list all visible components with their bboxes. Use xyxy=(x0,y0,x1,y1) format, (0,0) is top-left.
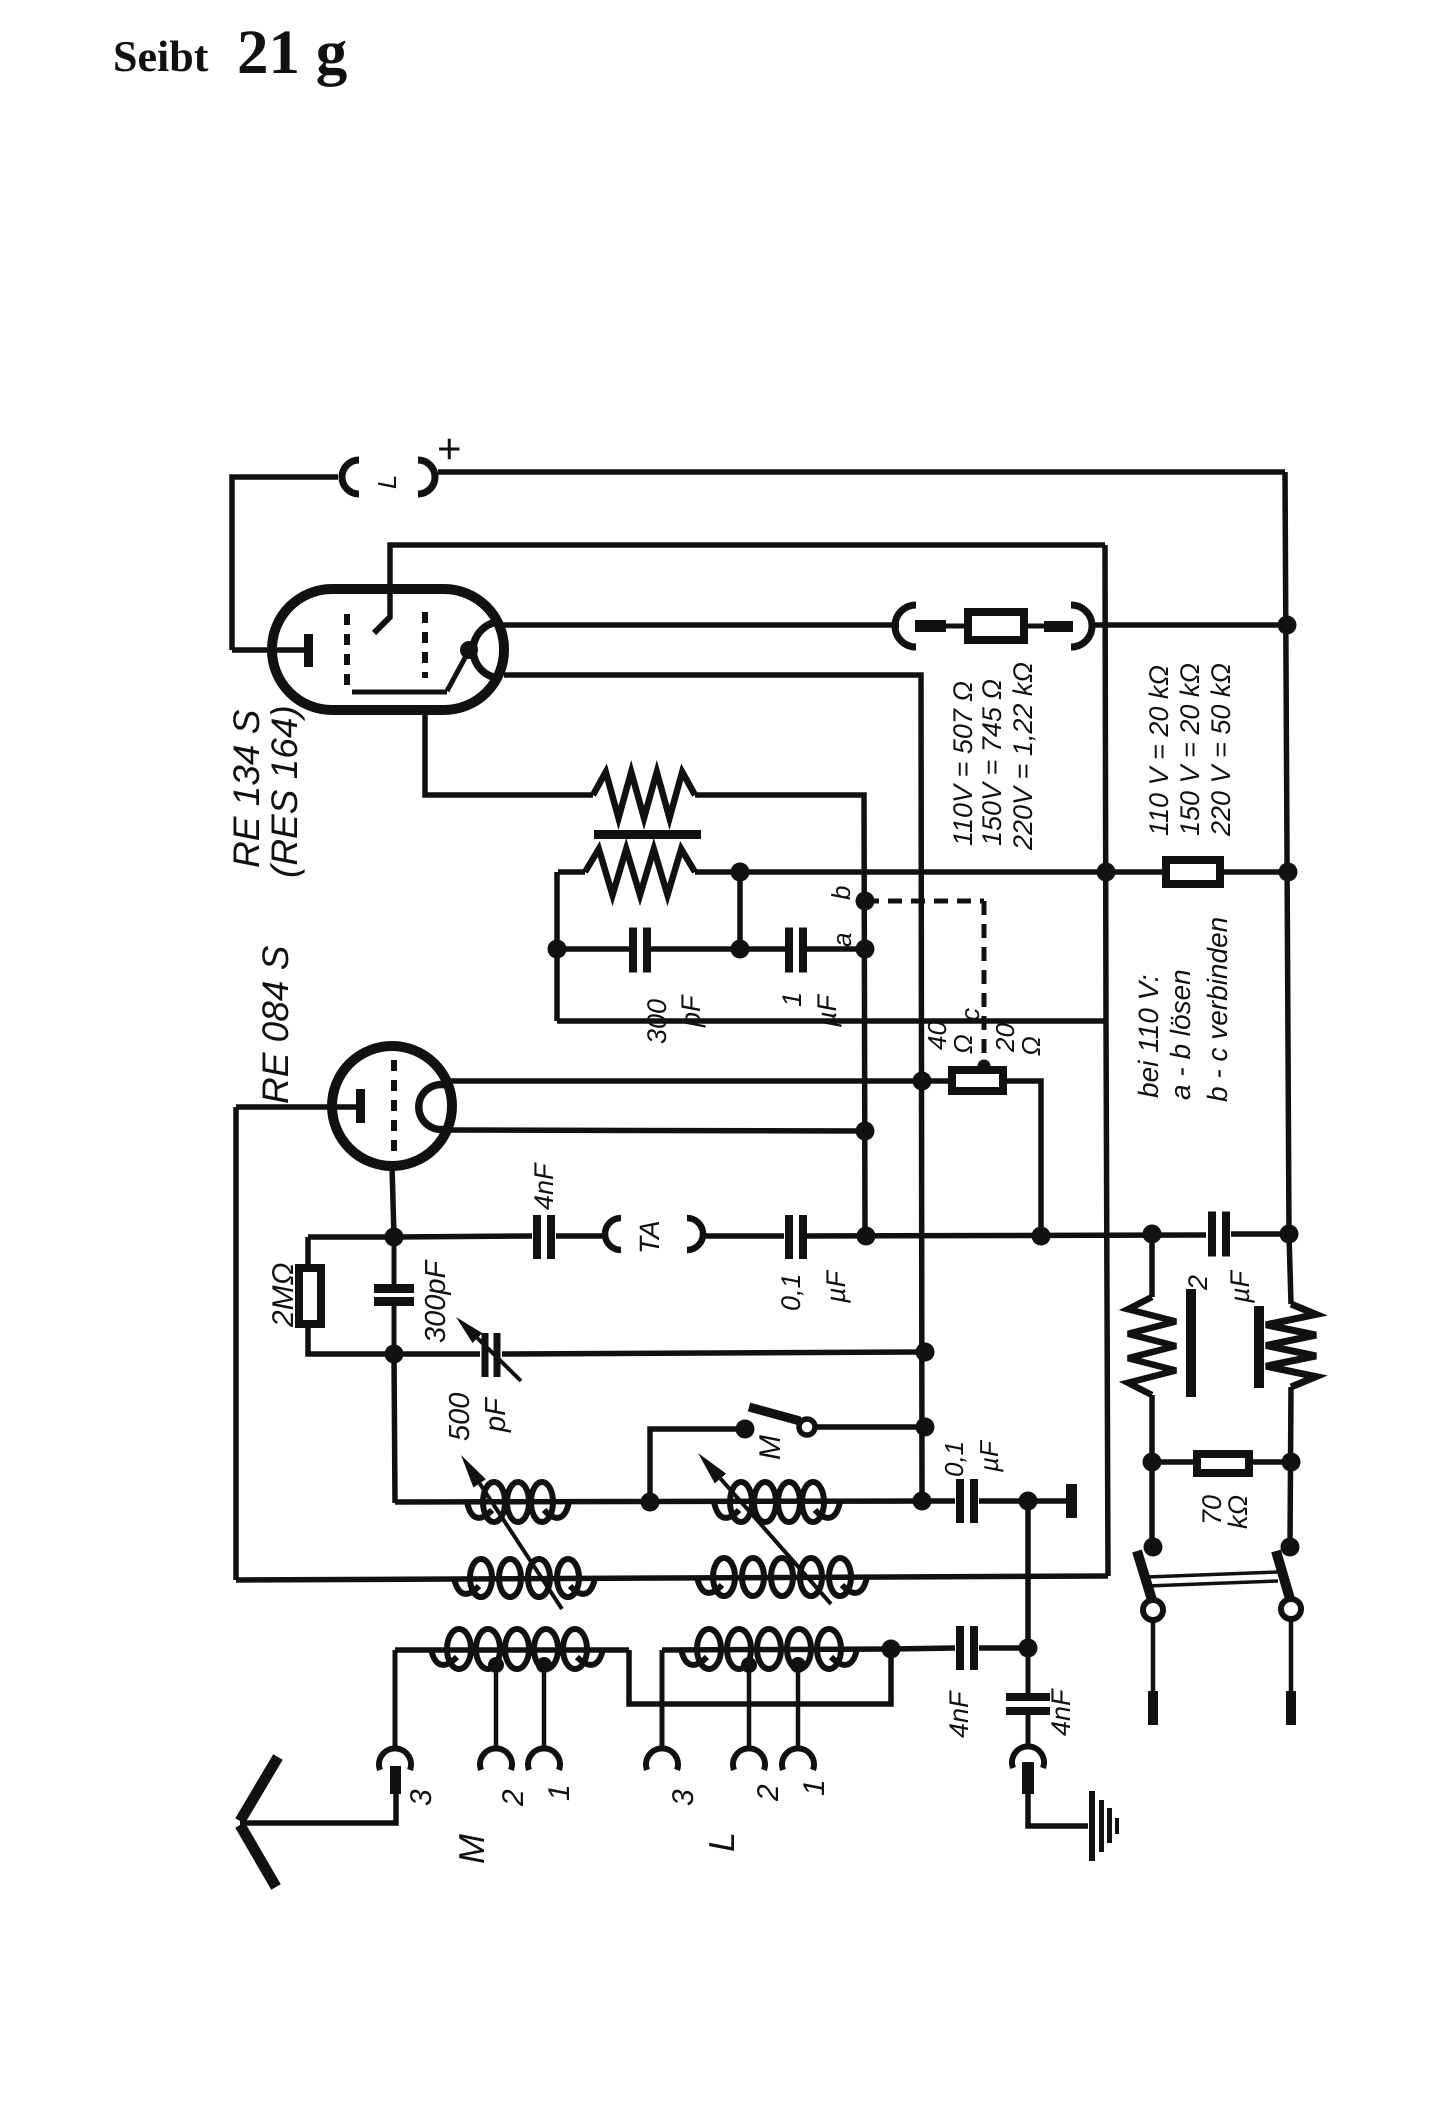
wire 0.1uF to bus row 1235 xyxy=(807,1235,1206,1236)
ground symbol bar 1 xyxy=(1089,1791,1095,1861)
ground symbol bar 3 xyxy=(1107,1808,1112,1843)
tube RE084S grid dashed electrode xyxy=(391,1060,397,1152)
switch left contact circle xyxy=(1143,1600,1163,1620)
svg-text:Seibt: Seibt xyxy=(113,32,209,81)
node junction 394-1354 xyxy=(385,1345,404,1364)
wire 2Mohm top leg xyxy=(305,1237,311,1268)
tube RE084S anode bar xyxy=(356,1089,365,1123)
antenna symbol upper stroke xyxy=(240,1757,278,1821)
svg-text:bei 110 V:: bei 110 V: xyxy=(1133,974,1164,1098)
svg-text:1: 1 xyxy=(777,992,807,1007)
wire ballast internal left xyxy=(946,624,968,629)
arrow variometer left xyxy=(480,1483,562,1609)
wire M-switch branch xyxy=(650,1429,744,1502)
tube RE134S anode bar xyxy=(304,634,313,667)
tube RE084S envelope xyxy=(332,1046,452,1166)
wire transformer primary right corner xyxy=(695,795,865,1236)
capacitor block right plate xyxy=(1254,1306,1264,1388)
wire resistor to bus 872 xyxy=(1220,869,1289,875)
svg-text:a: a xyxy=(827,933,857,947)
svg-text:220V = 1,22 kΩ: 220V = 1,22 kΩ xyxy=(1008,662,1038,851)
wire heater lead down from RE134S xyxy=(425,705,593,795)
transformer core bar xyxy=(594,830,701,839)
node M-switch contact dot xyxy=(736,1420,755,1439)
switch left pin bar xyxy=(1148,1691,1158,1725)
switch right pin bar xyxy=(1286,1691,1296,1725)
loudspeaker terminal L (left arc) xyxy=(342,460,359,494)
svg-text:c: c xyxy=(955,1008,985,1021)
resistor 2Mohm box xyxy=(299,1268,321,1324)
arrow variometer right xyxy=(720,1479,831,1604)
wire tall vertical right of centre xyxy=(1105,545,1108,1576)
node junction bus 872 xyxy=(1279,863,1298,882)
switch right lever xyxy=(1276,1551,1290,1599)
tube RE134S cathode dot xyxy=(460,641,478,659)
jack socket L1 xyxy=(782,1748,814,1770)
dashed wire b to c xyxy=(865,899,984,904)
svg-text:110V = 507 Ω: 110V = 507 Ω xyxy=(948,681,978,846)
node junction 866-1236 xyxy=(857,1227,876,1246)
svg-text:0,1: 0,1 xyxy=(776,1273,806,1311)
node junction bus-lamp xyxy=(1278,616,1297,635)
wire between caps vertical xyxy=(392,1237,397,1288)
wire plug to ground xyxy=(1028,1794,1088,1826)
node junction 922-1501 xyxy=(913,1492,932,1511)
wire ballast internal right xyxy=(1024,624,1044,629)
svg-text:220 V = 50 kΩ: 220 V = 50 kΩ xyxy=(1206,663,1236,837)
wire 0.1uF to chassis bar xyxy=(979,1498,1066,1504)
capacitor 300pF AF xyxy=(629,928,637,973)
wire 2uF to bus xyxy=(1231,1231,1289,1237)
jack socket M1 xyxy=(528,1748,560,1770)
svg-text:0,1: 0,1 xyxy=(939,1441,969,1477)
svg-text:110 V = 20 kΩ: 110 V = 20 kΩ xyxy=(1144,665,1174,836)
node b junction xyxy=(856,892,875,911)
svg-text:4nF: 4nF xyxy=(1046,1688,1076,1736)
wire 500pF row xyxy=(394,1351,480,1357)
wire row C jumper down xyxy=(629,1650,891,1704)
wire below RE084S xyxy=(392,1166,394,1237)
wire tap L1 xyxy=(796,1664,801,1747)
wire earth branch to 4nF series xyxy=(1026,1648,1031,1693)
M-switch open contact circle xyxy=(799,1419,815,1435)
earth socket arc xyxy=(1012,1746,1044,1768)
jack socket L3 xyxy=(646,1748,678,1770)
wire coil C2 left leg xyxy=(660,1650,665,1747)
ground symbol bar 4 xyxy=(1115,1818,1119,1834)
rheostat 40-20 ohm box xyxy=(952,1070,1003,1091)
node tap M2 xyxy=(488,1657,504,1673)
wire tap L2 xyxy=(747,1664,752,1747)
wire speaker-left to corner xyxy=(232,477,338,650)
wire cathode lead RE134S lower xyxy=(504,675,922,1500)
resistor dropper right zigzag xyxy=(1266,1304,1316,1387)
tube RE134S grid hook xyxy=(374,616,391,633)
svg-text:500: 500 xyxy=(444,1393,476,1441)
capacitor block left plate xyxy=(1186,1289,1196,1397)
coil B1 fixed xyxy=(454,1578,479,1594)
svg-text:2: 2 xyxy=(1183,1275,1213,1291)
svg-text:3: 3 xyxy=(667,1789,700,1806)
switch link bar upper xyxy=(1147,1572,1278,1577)
coil C2 antenna L xyxy=(681,1649,707,1665)
jack socket M2 xyxy=(480,1748,512,1770)
wire RE084S anode-row to rheostat xyxy=(446,1078,952,1084)
wire right bus vertical upper xyxy=(1285,472,1289,1234)
wire antenna lead xyxy=(240,1794,396,1823)
node junction 891-1649 xyxy=(882,1640,901,1659)
tube RE134S filament bottom line xyxy=(352,690,447,695)
node junction 650-1502 xyxy=(641,1493,660,1512)
wire coil row C right rail xyxy=(662,1649,891,1650)
antenna symbol lower stroke xyxy=(240,1825,276,1887)
svg-text:1: 1 xyxy=(798,1779,831,1796)
resistor 70kohm box xyxy=(1197,1454,1249,1473)
svg-text:TA: TA xyxy=(634,1220,665,1254)
wire TA to 0.1uF xyxy=(703,1233,784,1239)
svg-text:µF: µF xyxy=(821,1269,851,1304)
capacitor 4nF coupling xyxy=(533,1215,541,1259)
svg-text:+: + xyxy=(437,425,462,472)
coil A2 variable xyxy=(714,1502,739,1518)
switch link bar lower xyxy=(1147,1581,1278,1586)
node junction 557-949 xyxy=(548,940,567,959)
wire row A to 0.1uF xyxy=(927,1498,955,1504)
wire vertical link 740 xyxy=(737,872,743,949)
resistor ballast box xyxy=(968,612,1024,640)
wire 394-1237 to 4nF xyxy=(394,1236,532,1237)
jack socket M3 xyxy=(379,1748,411,1770)
wire grid top horizontal xyxy=(390,545,1105,617)
svg-text:L: L xyxy=(372,475,402,489)
wire anode RE134S to ballast lamp xyxy=(498,622,899,628)
node junction 1291-1462 xyxy=(1282,1453,1301,1472)
node switch right top xyxy=(1281,1538,1300,1557)
wire left branch vertical x557 xyxy=(554,872,560,1021)
resistor feed box on 872 row xyxy=(1166,860,1220,884)
svg-text:4nF: 4nF xyxy=(529,1162,559,1210)
capacitor 0.1uF TA xyxy=(785,1215,793,1259)
wire coil C1 left leg xyxy=(393,1650,398,1747)
svg-text:21 g: 21 g xyxy=(237,17,347,87)
loudspeaker terminal L (right arc) xyxy=(418,460,435,494)
svg-text:4nF: 4nF xyxy=(944,1690,974,1738)
wire right bus vertical lower xyxy=(1290,1387,1291,1547)
svg-text:Ω: Ω xyxy=(1016,1036,1046,1056)
ballast plug bar left xyxy=(915,620,946,632)
svg-text:Ω: Ω xyxy=(948,1034,978,1054)
wire 4nF to TA xyxy=(556,1233,605,1239)
svg-text:M: M xyxy=(754,1435,787,1460)
wire 70k row right xyxy=(1249,1459,1291,1465)
node junction bus-1234 xyxy=(1280,1225,1299,1244)
resistor dropper left zigzag xyxy=(1128,1297,1176,1395)
node junction 740-949 xyxy=(731,940,750,959)
svg-text:150 V = 20 kΩ: 150 V = 20 kΩ xyxy=(1175,663,1205,836)
capacitor 1uF xyxy=(785,928,793,973)
wire left dropper bottom xyxy=(1149,1395,1155,1547)
wire 2Mohm bottom leg xyxy=(308,1324,394,1354)
wire coil row C left rail xyxy=(395,1647,629,1653)
node tap M1 xyxy=(536,1657,552,1673)
wire tap M1 xyxy=(542,1664,547,1747)
transformer secondary winding zigzag xyxy=(585,849,695,895)
tube RE084S cathode arc xyxy=(419,1085,446,1130)
svg-text:b: b xyxy=(826,886,856,900)
svg-text:2: 2 xyxy=(752,1784,785,1802)
wire top bus horizontal xyxy=(438,469,1285,475)
ballast socket left arc xyxy=(895,605,916,647)
ballast socket right arc xyxy=(1071,605,1092,647)
svg-text:300pF: 300pF xyxy=(420,1258,452,1343)
tube RE134S grid dashed electrode xyxy=(344,614,350,690)
node junction 1152-1462 xyxy=(1143,1453,1162,1472)
tube RE134S filament diagonal xyxy=(447,656,466,691)
wire row C to 4nF xyxy=(891,1648,955,1649)
wire 4nF to earth branch xyxy=(979,1645,1028,1651)
svg-text:M: M xyxy=(451,1834,492,1864)
arrow of 500pF variable xyxy=(477,1338,521,1381)
switch right pin wire xyxy=(1289,1619,1294,1691)
wire left dropper top xyxy=(1149,1234,1155,1297)
svg-text:2MΩ: 2MΩ xyxy=(267,1263,300,1329)
tube RE084S anode lead xyxy=(236,1104,356,1110)
svg-text:RE 134 S: RE 134 S xyxy=(226,709,267,868)
tube RE134S cathode arc xyxy=(473,622,498,678)
TA socket left arc xyxy=(605,1218,621,1250)
node junction 1106-872 xyxy=(1097,863,1116,882)
wire 300pF row left xyxy=(557,946,629,952)
node tap L1 xyxy=(790,1657,806,1673)
wire 500pF row right xyxy=(502,1352,927,1354)
wire RE084S cathode lower lead xyxy=(446,1130,865,1131)
capacitor 0.1uF cathode xyxy=(956,1479,964,1523)
wire right dropper top xyxy=(1289,1234,1291,1304)
wire 4nF to earth socket xyxy=(1026,1715,1031,1746)
tube RE134S heater dashed electrode xyxy=(422,612,428,678)
wiper dot on rheostat xyxy=(978,1060,991,1073)
svg-text:(RES 164): (RES 164) xyxy=(264,705,305,878)
resistor 70k row left xyxy=(1152,1459,1197,1465)
svg-text:b - c verbinden: b - c verbinden xyxy=(1202,917,1233,1102)
node tap L2 xyxy=(741,1657,757,1673)
jack socket L2 xyxy=(733,1748,765,1770)
wire earth branch vertical xyxy=(1025,1501,1031,1648)
coil C1 antenna M xyxy=(431,1649,457,1665)
node junction 922-1081 xyxy=(913,1072,932,1091)
tube RE134S anode lead wire xyxy=(232,647,306,653)
svg-text:µF: µF xyxy=(1225,1269,1255,1304)
wire 1uF right xyxy=(807,946,865,952)
node junction 1041-1236 xyxy=(1032,1227,1051,1246)
svg-text:3: 3 xyxy=(405,1789,438,1806)
node junction 740-872 xyxy=(731,863,750,882)
wire coil row A rail xyxy=(395,1501,927,1502)
wire secondary left stub xyxy=(558,869,585,875)
svg-text:2: 2 xyxy=(497,1789,530,1807)
node junction 927-1427 xyxy=(916,1418,935,1437)
M-switch lever xyxy=(749,1407,800,1421)
TA socket right arc xyxy=(687,1218,703,1250)
wire ballast lamp to right bus xyxy=(1089,622,1289,628)
svg-text:µF: µF xyxy=(974,1439,1004,1473)
chassis bar xyxy=(1066,1484,1077,1518)
svg-text:kΩ: kΩ xyxy=(1223,1495,1253,1529)
switch right contact circle xyxy=(1281,1599,1301,1619)
tube RE134S envelope xyxy=(272,589,504,710)
antenna plug bar xyxy=(390,1766,401,1794)
wire rheostat right corner down xyxy=(1003,1081,1041,1236)
node junction 1152-1234 xyxy=(1143,1225,1162,1244)
node junction 1028-1648 xyxy=(1019,1639,1038,1658)
ballast plug bar right xyxy=(1044,621,1073,632)
switch left pin wire xyxy=(1151,1620,1156,1691)
node junction 865-1131 xyxy=(856,1122,875,1141)
wire tap M2 xyxy=(494,1664,499,1747)
capacitor 500pF variable xyxy=(482,1333,489,1377)
svg-text:RE 084 S: RE 084 S xyxy=(255,945,296,1104)
transformer primary winding zigzag xyxy=(593,772,695,818)
wire secondary-to-bus with resistor row xyxy=(695,869,1166,875)
svg-text:150V = 745 Ω: 150V = 745 Ω xyxy=(977,679,1007,846)
node switch left top xyxy=(1144,1538,1163,1557)
wire 394-1237 to 2Mohm corner xyxy=(308,1234,394,1240)
wire M-switch to 922 vertical xyxy=(815,1424,927,1430)
wire grid branch down to coil A xyxy=(394,1354,395,1503)
wire RE084S left branch down xyxy=(233,1107,239,1580)
svg-text:L: L xyxy=(701,1832,742,1852)
wire coil row B rail xyxy=(236,1576,1108,1580)
capacitor 2uF xyxy=(1208,1212,1216,1257)
switch left lever xyxy=(1137,1551,1152,1600)
node junction 927-1352 xyxy=(916,1343,935,1362)
capacitor 4nF earth xyxy=(1006,1693,1050,1701)
wire 300pF row middle xyxy=(651,946,786,952)
svg-text:1: 1 xyxy=(543,1784,576,1801)
node junction 394-1237 xyxy=(385,1228,404,1247)
capacitor 4nF antenna xyxy=(956,1626,964,1670)
capacitor 300pF grid xyxy=(374,1284,414,1293)
svg-text:pF: pF xyxy=(480,1396,512,1433)
coil A1 variable xyxy=(467,1502,492,1518)
svg-text:a - b lösen: a - b lösen xyxy=(1165,969,1196,1100)
earth plug bar xyxy=(1022,1762,1034,1794)
ground symbol bar 2 xyxy=(1099,1800,1104,1852)
node a junction xyxy=(856,940,875,959)
coil B2 fixed xyxy=(697,1577,722,1593)
node junction 1028-1501 xyxy=(1019,1492,1038,1511)
wire bottom of RC box xyxy=(557,1018,1106,1024)
